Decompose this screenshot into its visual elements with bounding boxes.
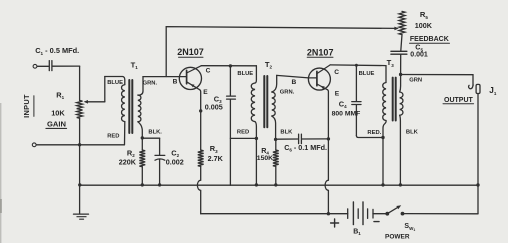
wire R3 hop over bus [197, 166, 200, 213]
battery B1 [348, 202, 373, 225]
wire ground bus [80, 184, 478, 186]
node R4 ground [274, 183, 277, 186]
svg-text:RED: RED [107, 133, 119, 139]
wire [275, 166, 277, 185]
node [255, 183, 258, 186]
label Q1 C [206, 68, 211, 75]
label T2 [265, 60, 273, 70]
svg-text:BLUE: BLUE [237, 71, 253, 77]
svg-text:2N107: 2N107 [307, 47, 334, 57]
wire T3 grn lead [399, 75, 402, 93]
svg-text:INPUT: INPUT [22, 94, 31, 118]
label Sw1 [404, 223, 415, 232]
T3 secondary winding [400, 92, 403, 115]
T3 core [393, 78, 396, 121]
label R1 [56, 90, 64, 100]
label red T1 [107, 133, 119, 139]
node C2 ground [158, 183, 161, 186]
label Q1 E [203, 89, 208, 96]
wire Q2 collector [330, 64, 386, 67]
wire jack sleeve [477, 94, 479, 186]
capacitor C5 [391, 51, 407, 54]
wire R1 wiper [84, 77, 105, 104]
label GAIN [46, 119, 67, 128]
label R2 value [119, 157, 137, 166]
resistor R1 [77, 100, 83, 118]
wire input return [36, 144, 124, 146]
wire T3 blue lead [385, 66, 387, 83]
wire [141, 138, 143, 150]
label R4 [261, 146, 269, 156]
svg-text:BLUE: BLUE [359, 71, 375, 77]
jack J1 [476, 84, 480, 93]
label blk T2 [280, 129, 293, 135]
label POWER [385, 233, 410, 240]
svg-text:B: B [292, 79, 297, 86]
T2 primary winding [251, 83, 255, 122]
wire [276, 138, 298, 140]
wire Q1 emitter [199, 90, 202, 150]
svg-text:GRN: GRN [409, 78, 422, 84]
ground [74, 214, 89, 219]
label R2 [127, 148, 135, 158]
node R2 ground [141, 183, 144, 186]
label 2N107 first [177, 47, 204, 57]
wire emitter hop over bus [325, 139, 328, 214]
svg-text:E: E [335, 90, 340, 97]
switch Sw1 [385, 205, 404, 215]
label R3 value [208, 154, 224, 163]
input terminal top [33, 64, 37, 68]
wire Q1 base wire [143, 76, 186, 78]
wire output [401, 75, 473, 86]
node C4 tap [355, 64, 358, 67]
resistor R5 [399, 11, 405, 34]
svg-text:2.7K: 2.7K [208, 154, 224, 163]
svg-text:C: C [334, 69, 339, 76]
T1 core [129, 80, 132, 133]
wire [477, 185, 479, 214]
wire [229, 66, 231, 96]
wire [37, 65, 48, 67]
label T3 [387, 58, 395, 68]
svg-text:150K: 150K [257, 155, 273, 162]
label R5 value [415, 21, 433, 30]
wire T2 grn lead [272, 75, 277, 92]
label R5 [420, 10, 428, 20]
svg-text:BLK: BLK [406, 129, 419, 135]
T1 secondary winding [138, 95, 141, 122]
label blue T3 [359, 71, 375, 77]
T1 primary winding [122, 85, 125, 122]
svg-text:RED: RED [237, 129, 249, 135]
wire [255, 138, 257, 185]
node C3 tap [229, 64, 232, 67]
node output ground [476, 183, 479, 186]
wire T2 blk lead [272, 116, 276, 139]
label R3 [210, 144, 218, 154]
label red T2 [237, 129, 249, 135]
wire T3 blk lead [399, 115, 402, 185]
capacitor C3 [227, 96, 236, 99]
node rail junction [327, 212, 330, 215]
wire [400, 55, 402, 75]
wire [79, 118, 81, 213]
label grn T2 [280, 89, 295, 95]
label C4 [339, 99, 347, 109]
wire Q2 base wire [277, 75, 317, 78]
T2 core [264, 76, 267, 127]
label battery plus [331, 219, 339, 227]
label Q2 E [335, 90, 340, 97]
wire C2 top [142, 138, 159, 155]
node T3 red ground [381, 183, 384, 186]
wire T3 red lead [381, 121, 386, 186]
wire [355, 65, 357, 101]
svg-text:B: B [173, 79, 178, 86]
transistor Q2 [308, 65, 330, 90]
label C1 value [35, 46, 79, 56]
wire [79, 66, 81, 100]
label C6 value [284, 143, 327, 153]
wire feedback top [166, 27, 399, 77]
svg-text:2N107: 2N107 [177, 47, 204, 57]
label grn T1 [143, 80, 158, 86]
input terminal bottom [32, 143, 36, 147]
label C5 value [410, 51, 428, 58]
label red T3 [367, 130, 381, 136]
svg-text:C: C [206, 68, 211, 75]
svg-text:100K: 100K [415, 21, 433, 30]
label C3 [214, 95, 222, 105]
svg-text:GAIN: GAIN [47, 119, 66, 128]
svg-text:POWER: POWER [385, 233, 410, 240]
resistor R4 [273, 150, 279, 166]
label battery minus [374, 221, 379, 223]
T2 secondary winding [272, 92, 275, 116]
transistor Q1 [179, 66, 201, 90]
svg-text:GRN.: GRN. [143, 80, 158, 86]
resistor R3 [198, 150, 204, 166]
label blk T3 [406, 129, 419, 135]
label FEEDBACK [410, 36, 450, 43]
left edge mark [0, 103, 2, 243]
wire [373, 213, 387, 215]
svg-text:0.002: 0.002 [166, 157, 184, 166]
node R1 return [78, 143, 81, 146]
svg-text:220K: 220K [119, 157, 137, 166]
wire T1 blue lead [105, 77, 125, 85]
svg-text:BLUE: BLUE [107, 80, 123, 86]
svg-text:BLK: BLK [280, 129, 293, 135]
wire Q1 collector [201, 65, 256, 67]
label C3 value [205, 103, 223, 112]
capacitor C1 [49, 61, 52, 71]
svg-text:RED.: RED. [367, 130, 381, 136]
label blue T1 [107, 80, 123, 86]
capacitor C4 [352, 102, 361, 105]
svg-text:0.001: 0.001 [410, 51, 428, 58]
wire [159, 160, 161, 186]
node T1 blk junction [141, 136, 144, 139]
label 2N107 second [307, 47, 334, 57]
jack J1 tip hook [469, 85, 474, 89]
node T2 blk junction [274, 138, 277, 141]
wire [302, 138, 327, 140]
label blue T2 [237, 71, 253, 77]
wire battery rail [201, 213, 348, 215]
wire T1 grn lead [138, 77, 143, 96]
svg-text:800 MMF: 800 MMF [332, 110, 361, 117]
node C5 junction [399, 73, 402, 76]
label blk T1 [148, 130, 162, 136]
label J1 [489, 86, 497, 96]
node T3 blk ground [399, 183, 402, 186]
label C4 value [332, 110, 361, 117]
resistor R2 [139, 150, 145, 167]
svg-text:OUTPUT: OUTPUT [444, 97, 474, 104]
label Q2 B [292, 79, 297, 86]
wire [229, 99, 231, 185]
svg-text:0.005: 0.005 [205, 103, 223, 112]
wire [141, 167, 143, 185]
node C6 emitter junction [327, 137, 330, 140]
node emitter dot [199, 109, 202, 112]
wire T1 blk lead [138, 122, 142, 138]
wire T2 blue lead [255, 66, 256, 83]
wire Q2 emitter [327, 90, 330, 139]
wire [53, 65, 80, 67]
label T1 [131, 60, 139, 70]
capacitor C6 [299, 134, 302, 143]
svg-text:BLK.: BLK. [148, 130, 162, 136]
label Q1 B [173, 79, 178, 86]
svg-text:10K: 10K [51, 109, 65, 118]
svg-text:GRN.: GRN. [280, 89, 295, 95]
label B1 [353, 228, 361, 236]
label C2 [171, 148, 179, 158]
node ground bus left [78, 183, 81, 186]
label R4 value [257, 155, 273, 162]
wire [275, 139, 277, 150]
wire T2 red lead [230, 122, 256, 139]
wire [403, 213, 479, 215]
label OUTPUT [443, 97, 474, 104]
capacitor C2 [155, 155, 165, 160]
wire T1 red lead [124, 122, 126, 145]
svg-text:E: E [203, 89, 208, 96]
wire [401, 35, 402, 51]
label C5 [415, 43, 423, 53]
T3 primary winding [383, 83, 386, 121]
label C2 value [166, 157, 184, 166]
node T2 red junction [255, 137, 258, 140]
label Q2 C [334, 69, 339, 76]
wire [356, 105, 383, 138]
label grn T3 [409, 78, 422, 84]
label INPUT [22, 94, 34, 118]
label R1 value [51, 109, 65, 118]
